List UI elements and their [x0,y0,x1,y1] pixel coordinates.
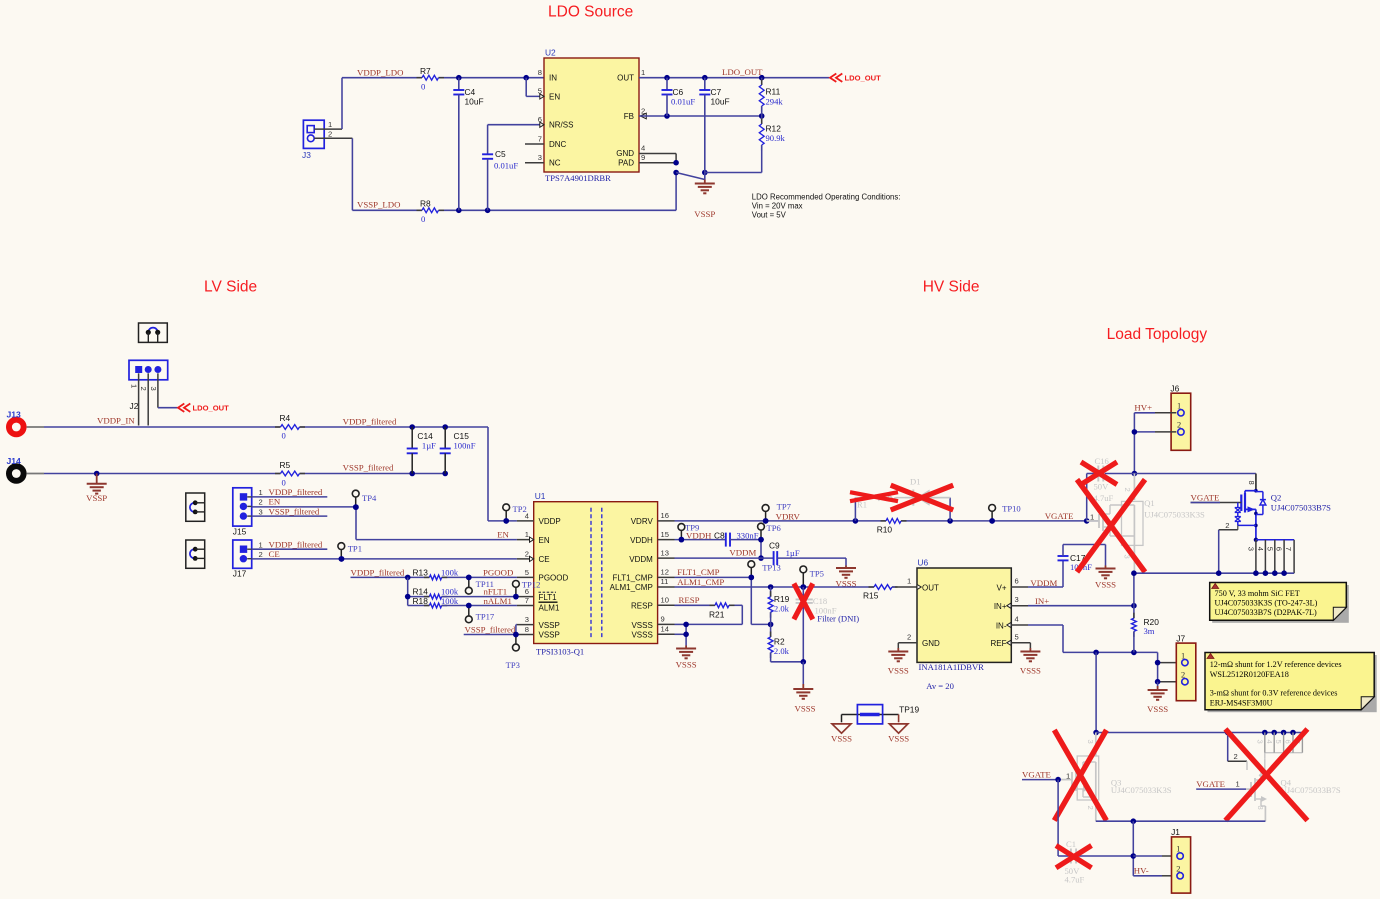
svg-text:CE: CE [269,549,280,559]
svg-text:VDDM: VDDM [1030,578,1057,588]
test point TP19 with VSSS grounds [831,705,919,744]
resistor R10 [877,519,907,535]
power symbol VSSS (C17) [1095,566,1116,590]
svg-text:1: 1 [1177,402,1181,411]
wire U6 REF [1029,643,1031,648]
net label VSSP_LDO [357,200,401,210]
svg-text:Vout = 5V: Vout = 5V [752,211,787,220]
svg-text:3: 3 [525,615,529,624]
wire to J7 [1155,652,1177,686]
transistor Q3 UJ4C075033K3S (DNI) [1058,733,1172,822]
test point TP9 [678,523,699,543]
wire pull bus [405,577,429,605]
svg-text:J17: J17 [233,569,247,579]
wire HV+ rail to Q2 [1087,474,1256,491]
wire VDDP_LDO [342,75,544,129]
svg-text:C4: C4 [465,87,476,97]
test point TP6 [758,523,782,542]
svg-text:VDRV: VDRV [631,517,654,526]
svg-text:C7: C7 [711,87,722,97]
svg-text:HV Side: HV Side [923,279,980,296]
text Av = 20 [926,681,954,691]
svg-text:UJ4C075033K3S (TO-247-3L): UJ4C075033K3S (TO-247-3L) [1215,599,1318,608]
svg-text:FLT1: FLT1 [539,593,558,602]
svg-text:2: 2 [1176,864,1180,873]
svg-text:C15: C15 [454,431,470,441]
note 750V SiC FET [1210,583,1349,623]
connector J13 [6,410,44,438]
svg-text:C5: C5 [495,149,506,159]
svg-text:2: 2 [1225,521,1229,530]
svg-text:TP6: TP6 [767,523,782,533]
wire nALM1 [442,603,517,609]
DNI cross over C16 [1081,462,1117,485]
capacitor C14 [407,427,436,474]
svg-text:TP10: TP10 [1002,504,1021,514]
svg-text:GND: GND [922,639,940,648]
svg-text:3-mΩ shunt for 0.3V reference: 3-mΩ shunt for 0.3V reference devices [1210,689,1338,698]
net label VGATE (Q4) [1196,779,1246,789]
svg-text:LDO_OUT: LDO_OUT [193,404,230,413]
power symbol VSSP (J14) [86,474,107,504]
svg-text:V+: V+ [996,583,1006,592]
net label ALM1_CMP [677,577,724,587]
svg-text:0.01uF: 0.01uF [494,161,518,171]
svg-text:8: 8 [538,68,542,77]
svg-text:VSSS: VSSS [1020,666,1041,676]
wire FB [639,113,765,119]
svg-text:Load Topology: Load Topology [1107,326,1208,343]
svg-text:D1: D1 [910,477,921,487]
wire IN- [1028,625,1158,655]
wire VSSP input [44,471,448,477]
net label EN (J15) [269,497,281,507]
svg-text:J2: J2 [130,401,139,411]
svg-text:FLT1_CMP: FLT1_CMP [612,574,652,583]
svg-text:HV+: HV+ [1134,403,1152,413]
wire switch node vertical [1093,652,1099,735]
net label HV- [1134,866,1149,876]
section title: LDO Source [548,4,633,21]
svg-text:3: 3 [1255,740,1264,744]
net label VDDP_filtered (R13) [351,567,405,577]
svg-text:6: 6 [1275,547,1284,551]
svg-text:Vin = 20V max: Vin = 20V max [752,202,803,211]
note shunt selection [1205,653,1377,713]
net label HV+ [1134,403,1152,413]
svg-text:2: 2 [139,387,148,391]
wire J15 pin1 [252,496,328,498]
svg-text:6: 6 [1015,577,1019,586]
svg-text:1: 1 [907,577,911,586]
svg-text:LDO Source: LDO Source [548,4,633,21]
off-page connector LDO_OUT (J2) [178,404,229,413]
svg-text:J13: J13 [7,410,22,420]
test point TP11 [465,575,494,594]
net label nFLT1 [484,587,508,597]
svg-text:J3: J3 [302,150,311,160]
svg-text:TP13: TP13 [762,563,781,573]
capacitor C4 [453,78,483,211]
svg-text:1: 1 [1090,512,1094,521]
wire HV+ [1132,413,1177,477]
resistor R7 [417,66,445,92]
svg-text:VSSS: VSSS [631,630,652,639]
svg-text:7: 7 [1284,547,1293,551]
svg-text:2: 2 [1177,421,1181,430]
svg-text:VSSS: VSSS [888,666,909,676]
svg-text:NR/SS: NR/SS [549,121,573,130]
capacitor C5 [482,125,544,211]
section title: HV Side [923,279,980,296]
power symbol VSSS (U1) [676,646,697,670]
connector J1 [1171,827,1191,893]
net label FLT1_CMP [677,567,719,577]
svg-text:3: 3 [259,507,263,516]
svg-text:R8: R8 [420,199,431,209]
svg-text:EN: EN [269,497,281,507]
svg-text:R19: R19 [774,594,790,604]
svg-text:3: 3 [538,153,542,162]
wire J15 pin3 [252,515,328,517]
net label VSSP_filtered (J15) [269,506,320,516]
resistor R18 100k [413,596,459,608]
DNI cross over R1 [850,492,898,501]
svg-text:16: 16 [661,511,669,520]
test point TP5 [800,566,824,590]
current sense amplifier U6 INA181A1IDBVR [898,558,1030,673]
svg-text:2: 2 [1086,806,1095,810]
svg-text:VDDP: VDDP [539,517,561,526]
power symbol VSSS (J7) [1147,686,1168,714]
svg-text:TP7: TP7 [777,502,792,512]
svg-text:OUT: OUT [922,583,939,592]
svg-text:IN+: IN+ [994,602,1007,611]
svg-text:C6: C6 [673,87,684,97]
svg-text:VDDP_LDO: VDDP_LDO [357,68,403,78]
resistor R12 90.9k [705,116,786,173]
svg-text:OUT: OUT [617,74,634,83]
svg-text:7: 7 [525,596,529,605]
svg-text:ERJ-MS4SF3M0U: ERJ-MS4SF3M0U [1210,699,1273,708]
test point TP2 [503,504,527,524]
svg-text:750 V, 33 mohm SiC FET: 750 V, 33 mohm SiC FET [1215,589,1300,598]
test point TP7 [762,502,791,524]
DNI cross over Q4 [1225,729,1307,821]
svg-text:4: 4 [1265,740,1274,744]
test point TP12 [513,580,541,600]
svg-text:R15: R15 [863,591,879,601]
svg-text:90.9k: 90.9k [766,133,786,143]
net label VDDH [686,530,712,540]
connector J6 [1170,384,1190,451]
svg-text:R13: R13 [413,567,429,577]
svg-text:R10: R10 [877,525,893,535]
net label VDDP_filtered [343,417,397,427]
wire VSSS pins [675,622,689,646]
svg-text:VDDP_filtered: VDDP_filtered [269,487,323,497]
svg-text:EN: EN [539,536,550,545]
svg-text:1: 1 [1066,771,1070,780]
svg-text:VSSS: VSSS [831,734,852,744]
svg-text:5: 5 [1015,632,1019,641]
svg-text:FB: FB [624,112,634,121]
wire PGOOD [351,575,517,581]
jumper shunt icon (J2) [139,323,168,342]
svg-text:1: 1 [641,68,645,77]
section title: LV Side [204,279,257,296]
power symbol VSSS (C18) [793,684,815,714]
svg-text:REF: REF [991,639,1007,648]
wire VDDP_filtered to U1 [409,424,517,524]
power symbol VSSS (U6 GND) [888,648,909,676]
DNI cross over Q3 [1054,730,1106,821]
resistor R20 3m shunt [1132,573,1160,652]
svg-text:2: 2 [328,130,332,139]
svg-text:10: 10 [661,596,669,605]
net label VDDM (U6) [1030,578,1057,588]
capacitor C6 [662,78,696,116]
wire HV- node [1131,821,1177,876]
wire FLT1_CMP [675,575,774,628]
svg-text:J1: J1 [1171,827,1180,837]
section title: Load Topology [1107,326,1208,343]
svg-text:1: 1 [328,120,332,129]
svg-text:9: 9 [661,615,665,624]
svg-text:PAD: PAD [618,159,634,168]
power symbol VSSS (U6 REF) [1020,648,1041,676]
svg-text:4: 4 [1256,547,1265,551]
svg-text:100nF: 100nF [454,441,476,451]
svg-text:R4: R4 [280,413,291,423]
wire Q2 source rail [1131,570,1294,576]
svg-text:TP11: TP11 [476,579,494,589]
svg-text:3: 3 [1247,547,1256,551]
capacitor C1 (DNI) [1065,839,1085,885]
isolated switch driver U1 TPSI3103-Q1 [517,491,675,656]
svg-text:Q2: Q2 [1271,492,1282,502]
capacitor C15 [440,427,476,474]
svg-text:UJ4C075033K3S: UJ4C075033K3S [1111,785,1172,795]
capacitor C7 [699,78,729,180]
svg-text:VSSP_LDO: VSSP_LDO [357,200,401,210]
svg-text:3: 3 [1015,595,1019,604]
wire EN [252,504,517,539]
wire VDDP_IN [44,426,412,428]
svg-text:PGOOD: PGOOD [483,567,513,577]
svg-text:Av = 20: Av = 20 [926,681,954,691]
svg-text:TP3: TP3 [506,660,520,670]
wire VSSP_filtered to U1 [464,625,519,638]
wire IN+ [1028,603,1137,609]
svg-text:TP5: TP5 [810,569,824,579]
connector J14 [6,456,44,484]
svg-text:J6: J6 [1170,384,1179,394]
test point TP17 [465,603,495,623]
wire J17 pin1 [252,548,328,550]
wire U6 GND [897,643,899,648]
svg-text:U6: U6 [917,558,928,568]
svg-text:U1: U1 [535,491,546,501]
svg-text:EN: EN [549,92,560,101]
svg-text:0: 0 [421,82,425,92]
svg-text:2: 2 [907,632,911,641]
svg-text:UJ4C075033B7S (D2PAK-7L): UJ4C075033B7S (D2PAK-7L) [1215,608,1318,617]
svg-text:VSSP: VSSP [694,209,715,219]
svg-text:VSSS: VSSS [1095,580,1116,590]
diode D1 (DNI) [905,477,950,506]
net label IN+ [1035,596,1049,606]
wire C1 branch [1058,780,1133,856]
svg-text:15: 15 [661,530,669,539]
svg-text:ALM1: ALM1 [539,604,560,613]
wire V+ VDDM [1028,560,1063,587]
svg-text:5: 5 [1274,740,1283,744]
resistor R4 [275,413,305,441]
net label VDDP_LDO [357,68,403,78]
test point TP10 [989,504,1021,524]
svg-text:10uF: 10uF [465,97,484,107]
net label PGOOD [483,567,513,577]
transistor Q4 UJ4C075033B7S (DNI) [1228,733,1341,822]
wire nFLT1 [442,594,519,600]
svg-text:13: 13 [661,548,669,557]
capacitor C17 100nF [1058,545,1106,573]
net label VDRV [776,512,801,522]
svg-text:VSSP: VSSP [86,493,107,503]
svg-text:C16: C16 [1095,456,1110,466]
svg-text:VDDP_IN: VDDP_IN [97,416,135,426]
test point TP3 [506,632,520,670]
svg-text:2.0k: 2.0k [774,604,790,614]
svg-text:VDDM: VDDM [729,547,756,557]
wire GND PAD tie [639,154,708,180]
wire lower drain rail [1096,730,1302,736]
svg-text:3: 3 [149,387,158,391]
svg-text:1: 1 [259,488,263,497]
wire LDO_OUT [639,75,829,81]
svg-text:Filter (DNI): Filter (DNI) [817,614,859,624]
svg-text:1: 1 [1236,779,1240,788]
svg-text:11: 11 [661,577,669,586]
svg-text:7: 7 [538,134,542,143]
svg-text:CE: CE [539,555,550,564]
svg-text:1: 1 [130,384,139,388]
svg-text:0: 0 [282,431,286,441]
svg-text:1µF: 1µF [422,441,436,451]
svg-text:VSSP_filtered: VSSP_filtered [343,463,394,473]
svg-text:2: 2 [1181,671,1185,680]
capacitor C18 (DNI) [796,587,837,662]
LDO regulator U2 TPS7A4901DRBR [525,48,646,184]
svg-text:RESP: RESP [679,595,700,605]
resistor R14 100k [413,587,459,599]
svg-text:12-mΩ shunt for 1.2V reference: 12-mΩ shunt for 1.2V reference devices [1210,660,1342,669]
net label VDDP_IN [97,416,135,426]
DNI cross over C18 [794,584,813,620]
net label VGATE (Q2) [1191,492,1221,502]
svg-text:R2: R2 [774,637,785,647]
svg-text:TP17: TP17 [476,611,495,621]
svg-text:R12: R12 [766,124,782,134]
net label VSSP_filtered [343,463,394,473]
svg-text:C9: C9 [769,540,780,550]
resistor R2 2.0k [768,624,803,661]
svg-text:3: 3 [1086,740,1095,744]
svg-text:ALM1_CMP: ALM1_CMP [677,577,724,587]
svg-text:R21: R21 [709,610,725,620]
svg-text:R5: R5 [280,460,291,470]
svg-text:IN+: IN+ [1035,596,1049,606]
net label nALM1 [484,596,512,606]
svg-text:4: 4 [1015,614,1019,623]
svg-text:VSSS: VSSS [676,660,697,670]
wire VDDH [675,537,726,543]
svg-text:WSL2512R0120FEA18: WSL2512R0120FEA18 [1210,670,1289,679]
svg-text:2: 2 [259,550,263,559]
wire lower source rail [1096,818,1266,824]
svg-text:5: 5 [525,568,529,577]
svg-text:100k: 100k [441,567,459,577]
svg-text:UJ4C075033B7S: UJ4C075033B7S [1281,785,1341,795]
svg-text:IN-: IN- [996,621,1007,630]
wire R15 to U6 [892,586,917,588]
svg-text:14: 14 [661,625,669,634]
svg-text:8: 8 [1247,481,1256,485]
svg-text:1: 1 [525,530,529,539]
resistor R8 [417,199,445,225]
transistor Q2 UJ4C075033B7S [1191,474,1332,574]
net label VDDP_filtered (J17) [269,539,323,549]
svg-text:VDDP_filtered: VDDP_filtered [351,567,405,577]
svg-text:1: 1 [1176,845,1180,854]
svg-text:C1: C1 [1066,839,1076,849]
power symbol VSSS (C9) [835,566,856,589]
svg-text:VSSP: VSSP [539,621,560,630]
svg-text:NC: NC [549,159,561,168]
svg-text:J15: J15 [233,527,247,537]
svg-text:0: 0 [282,478,286,488]
capacitor C8 330nF [714,530,759,546]
jumper shunt icon (J17) [186,540,205,568]
wire C9 to VSSS [777,558,846,565]
svg-text:2.0k: 2.0k [774,646,790,656]
svg-text:LDO_OUT: LDO_OUT [845,74,882,83]
svg-text:VSSP: VSSP [539,630,560,639]
net label VGATE (Q3) [1022,769,1061,782]
DNI cross over D1 [891,485,954,510]
svg-text:VSSP_filtered: VSSP_filtered [269,506,320,516]
net label VSSP_filtered (U1) [465,624,516,634]
svg-text:EN: EN [497,530,509,540]
svg-text:Q1: Q1 [1144,498,1155,508]
svg-text:PGOOD: PGOOD [539,574,569,583]
DNI cross over C1 [1056,846,1092,868]
svg-text:VSSS: VSSS [888,734,909,744]
svg-text:VDDP_filtered: VDDP_filtered [269,539,323,549]
wire ALM1_CMP [675,584,875,590]
wire VSSP_LDO [352,138,676,213]
wire EN tie to IN [526,78,544,97]
svg-text:RESP: RESP [631,601,653,610]
svg-text:VDDM: VDDM [629,555,653,564]
svg-text:FLT1_CMP: FLT1_CMP [677,567,719,577]
svg-text:TP1: TP1 [348,543,362,553]
text Filter DNI [817,614,859,624]
resistor R5 [275,460,305,488]
svg-text:4: 4 [525,511,529,520]
net label CE (J17) [269,549,280,559]
